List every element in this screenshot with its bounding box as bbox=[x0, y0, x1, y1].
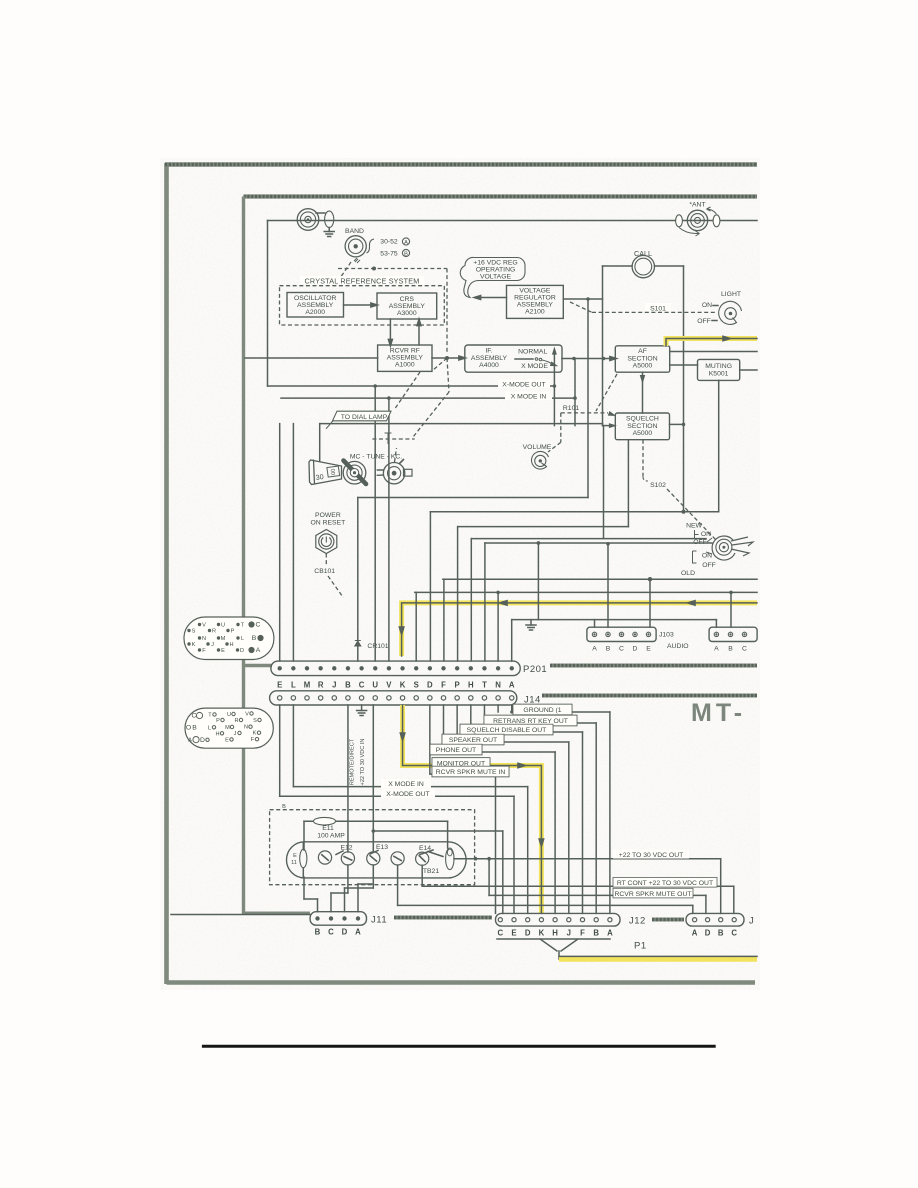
svg-text:T: T bbox=[241, 623, 245, 629]
svg-text:J: J bbox=[567, 929, 571, 938]
svg-text:N: N bbox=[202, 636, 206, 642]
yellow af out to right bbox=[666, 339, 757, 347]
svg-text:+16 VDC REG: +16 VDC REG bbox=[473, 260, 517, 267]
ground wire from outer border to J11 bbox=[171, 914, 310, 916]
svg-text:N: N bbox=[495, 681, 501, 690]
+22 TO 30 VDC OUT bbox=[720, 859, 722, 914]
screw terminals bbox=[318, 851, 331, 864]
svg-text:H: H bbox=[229, 642, 233, 648]
svg-text:F: F bbox=[580, 929, 585, 938]
svg-text:SECTION: SECTION bbox=[627, 356, 657, 363]
svg-text:SQUELCH DISABLE OUT: SQUELCH DISABLE OUT bbox=[467, 727, 547, 734]
svg-text:A: A bbox=[714, 646, 719, 653]
svg-text:J: J bbox=[234, 731, 237, 737]
chassis left vertical bbox=[267, 221, 269, 387]
svg-text:ASSEMBLY: ASSEMBLY bbox=[517, 302, 554, 309]
svg-text:K5001: K5001 bbox=[709, 371, 729, 378]
svg-text:D: D bbox=[633, 646, 638, 653]
svg-text:E: E bbox=[646, 646, 651, 653]
svg-text:B: B bbox=[728, 646, 733, 653]
svg-text:M: M bbox=[225, 725, 230, 731]
REMOTE/DIRECT drop to TB21 E12 bbox=[347, 705, 349, 852]
muting K5001 bbox=[698, 359, 740, 380]
wire E14 to right bbox=[454, 858, 721, 860]
fuse F11 inside bbox=[300, 849, 307, 868]
svg-text:C: C bbox=[256, 622, 261, 629]
svg-text:CB101: CB101 bbox=[314, 568, 335, 575]
svg-text:PHONE OUT: PHONE OUT bbox=[436, 747, 476, 754]
svg-text:A: A bbox=[509, 681, 515, 690]
svg-text:E: E bbox=[511, 929, 516, 938]
svg-text:NEW: NEW bbox=[686, 523, 702, 530]
svg-text:A: A bbox=[188, 738, 192, 744]
drop x=538.4 bbox=[537, 543, 539, 620]
svg-text:K: K bbox=[400, 681, 406, 690]
svg-text:C: C bbox=[742, 646, 747, 653]
svg-text:D: D bbox=[240, 648, 244, 654]
svg-text:H: H bbox=[215, 731, 219, 737]
svg-text:V: V bbox=[202, 623, 206, 629]
wire into squelch left bbox=[603, 425, 611, 427]
x-mode in line bbox=[281, 397, 575, 399]
svg-text:B: B bbox=[345, 681, 351, 690]
bus y=526.6 from squelch bbox=[458, 526, 629, 528]
wire rcvr to IF assembly bbox=[432, 357, 461, 359]
bus y=538.6 call box right bbox=[471, 538, 706, 540]
svg-text:A4000: A4000 bbox=[479, 362, 499, 369]
+16 VDC bubble bbox=[460, 257, 525, 297]
svg-text:A: A bbox=[404, 240, 408, 246]
svg-text:A: A bbox=[355, 928, 361, 937]
to dial lamp flag bbox=[320, 423, 603, 425]
svg-text:RCVR SPKR MUTE IN: RCVR SPKR MUTE IN bbox=[436, 769, 506, 776]
svg-text:TB21: TB21 bbox=[423, 868, 439, 875]
svg-text:U: U bbox=[221, 623, 225, 629]
svg-text:B: B bbox=[606, 646, 611, 653]
svg-text:VOLTAGE: VOLTAGE bbox=[480, 274, 512, 281]
svg-text:J: J bbox=[332, 681, 336, 690]
svg-text:R: R bbox=[318, 681, 324, 690]
svg-text:30: 30 bbox=[315, 472, 324, 482]
svg-text:OPERATING: OPERATING bbox=[476, 267, 516, 274]
bus y=543 to switch bbox=[485, 542, 712, 544]
svg-text:MT-: MT- bbox=[691, 699, 746, 727]
dashed from BAND to crystal box bbox=[354, 258, 360, 263]
wires to P201 pins bbox=[279, 424, 281, 661]
svg-text:A2100: A2100 bbox=[525, 309, 545, 316]
svg-text:T: T bbox=[208, 713, 212, 719]
svg-text:ASSEMBLY: ASSEMBLY bbox=[387, 355, 424, 362]
svg-text:R101: R101 bbox=[563, 405, 579, 412]
IF assembly A4000 bbox=[465, 345, 562, 372]
dashed node near IF bbox=[445, 356, 449, 360]
svg-text:C: C bbox=[192, 713, 197, 720]
svg-text:IF.: IF. bbox=[485, 348, 492, 355]
svg-text:A: A bbox=[692, 929, 698, 938]
x-mode out line bbox=[268, 385, 555, 387]
bus y=497.5 bbox=[358, 497, 588, 499]
PHONE OUT line bbox=[443, 705, 445, 752]
svg-text:T: T bbox=[482, 681, 487, 690]
SQUELCH DISABLE OUT line bbox=[470, 705, 472, 732]
svg-text:CRS: CRS bbox=[400, 296, 415, 303]
svg-text:OLD: OLD bbox=[681, 570, 695, 577]
wires CRS down to RCVR RF bbox=[389, 319, 391, 342]
battery dashed box B bbox=[270, 810, 475, 885]
K5001 drop bbox=[718, 380, 720, 511]
RCVR SPKR MUTE IN line bbox=[429, 705, 431, 774]
MONITOR OUT yellow line bbox=[403, 705, 542, 913]
bottom yellow cable bbox=[559, 957, 757, 962]
svg-text:E11: E11 bbox=[322, 825, 334, 832]
P201 face view pill bbox=[184, 617, 274, 660]
connector J12 bbox=[496, 913, 621, 926]
svg-text:B: B bbox=[718, 929, 724, 938]
TB21 terminal strip bbox=[287, 842, 467, 878]
svg-text:MUTING: MUTING bbox=[705, 363, 732, 370]
svg-text:H: H bbox=[468, 681, 474, 690]
svg-text:53-75: 53-75 bbox=[380, 251, 398, 258]
inner chassis frame bbox=[244, 194, 758, 198]
RT CONT +22 TO 30 VDC OUT bbox=[421, 865, 423, 886]
svg-text:A5000: A5000 bbox=[633, 430, 653, 437]
svg-text:S: S bbox=[414, 681, 419, 690]
svg-text:P: P bbox=[216, 718, 220, 724]
dashed af to r101 bbox=[596, 374, 617, 411]
svg-text:SQUELCH: SQUELCH bbox=[626, 416, 659, 423]
svg-text:B: B bbox=[593, 929, 599, 938]
svg-text:K: K bbox=[192, 642, 196, 648]
svg-text:00: 00 bbox=[329, 469, 336, 476]
connector J14 bbox=[270, 691, 517, 705]
svg-text:B: B bbox=[252, 635, 257, 642]
svg-text:REGULATOR: REGULATOR bbox=[514, 295, 556, 302]
E11 100 AMP fuse line bbox=[304, 820, 448, 822]
svg-text:VOLTAGE: VOLTAGE bbox=[519, 288, 551, 295]
+22 VDC IN drop to TB21 E13 bbox=[372, 705, 374, 852]
svg-text:S102: S102 bbox=[650, 482, 666, 489]
CR101 diode bbox=[355, 641, 361, 647]
svg-text:E: E bbox=[221, 648, 225, 654]
svg-text:C: C bbox=[497, 929, 503, 938]
E14 capsule bbox=[446, 848, 454, 870]
svg-text:F: F bbox=[441, 681, 446, 690]
svg-text:ON: ON bbox=[702, 302, 712, 309]
svg-text:E: E bbox=[277, 681, 282, 690]
svg-text:C: C bbox=[328, 928, 334, 937]
vertical bus x=588 bbox=[587, 299, 589, 498]
P1 cable bracket bbox=[497, 939, 610, 959]
connector P201 bbox=[271, 661, 520, 676]
svg-text:P201: P201 bbox=[523, 664, 547, 675]
S101 dashed + light bbox=[570, 302, 592, 312]
svg-text:P: P bbox=[231, 629, 235, 635]
svg-text:X-MODE OUT: X-MODE OUT bbox=[386, 791, 429, 798]
svg-text:B: B bbox=[192, 725, 197, 732]
svg-text:D: D bbox=[200, 737, 205, 744]
bus y=592.4 bbox=[415, 591, 757, 593]
svg-text:C: C bbox=[731, 929, 737, 938]
footer rule bbox=[202, 1045, 716, 1048]
svg-text:J12: J12 bbox=[629, 916, 646, 927]
wire frame to rcvr rf bbox=[245, 357, 378, 359]
right audio connector bbox=[709, 627, 757, 641]
svg-text:E12: E12 bbox=[340, 845, 352, 852]
svg-text:A3000: A3000 bbox=[397, 310, 417, 317]
crystal reference system dashed box bbox=[280, 286, 445, 325]
svg-text:REMOTE/DIRECT: REMOTE/DIRECT bbox=[350, 738, 356, 785]
outer page border bbox=[165, 163, 757, 984]
svg-text:D: D bbox=[705, 929, 711, 938]
wire IF to AF section bbox=[562, 358, 612, 360]
svg-text:LIGHT: LIGHT bbox=[721, 291, 741, 298]
svg-text:L: L bbox=[291, 681, 296, 690]
TB21 E13 to J12 C bbox=[372, 831, 374, 842]
svg-text:D: D bbox=[342, 928, 348, 937]
svg-text:POWER: POWER bbox=[315, 512, 341, 519]
svg-text:F: F bbox=[251, 737, 255, 743]
svg-text:M: M bbox=[221, 636, 226, 642]
squelch section A5000 bbox=[615, 413, 669, 440]
RETRANS RT KEY OUT line bbox=[483, 705, 485, 723]
svg-text:P: P bbox=[455, 681, 460, 690]
arrow to bubble bbox=[478, 297, 507, 299]
svg-text:F: F bbox=[202, 648, 206, 654]
svg-text:C: C bbox=[619, 646, 624, 653]
SPEAKER OUT line bbox=[456, 705, 458, 742]
BNC connector top-left bbox=[297, 209, 319, 231]
svg-text:+22 TO 30 VDC OUT: +22 TO 30 VDC OUT bbox=[619, 852, 684, 859]
AF section A5000 bbox=[615, 346, 669, 372]
RCVR RF assembly A1000 bbox=[378, 345, 432, 371]
svg-text:ON: ON bbox=[701, 531, 711, 538]
svg-text:S: S bbox=[192, 629, 196, 635]
wires TB21 down to J11 bbox=[303, 877, 305, 899]
svg-text:SPEAKER OUT: SPEAKER OUT bbox=[449, 737, 497, 744]
svg-text:A: A bbox=[607, 929, 613, 938]
svg-text:OSCILLATOR: OSCILLATOR bbox=[294, 295, 337, 302]
svg-text:+22 TO 30 VDC IN: +22 TO 30 VDC IN bbox=[360, 739, 366, 786]
svg-text:AF: AF bbox=[638, 348, 647, 355]
svg-text:ASSEMBLY: ASSEMBLY bbox=[297, 302, 334, 309]
svg-text:X MODE IN: X MODE IN bbox=[388, 781, 424, 788]
GROUND (1) line bbox=[511, 705, 513, 712]
svg-text:V: V bbox=[386, 681, 392, 690]
S102 dashed from squelch bbox=[642, 440, 644, 477]
svg-text:J: J bbox=[749, 916, 754, 927]
voltage regulator assembly A2100 bbox=[507, 285, 564, 318]
ground on bus bbox=[530, 620, 532, 625]
svg-text:U: U bbox=[372, 681, 378, 690]
svg-text:ASSEMBLY: ASSEMBLY bbox=[389, 303, 426, 310]
wire af right out bbox=[670, 351, 757, 353]
wire squelch to right bus bbox=[670, 423, 684, 425]
oscillator assembly A2000 bbox=[287, 293, 344, 318]
svg-text:VOLUME: VOLUME bbox=[523, 444, 552, 451]
svg-text:B: B bbox=[404, 251, 408, 257]
svg-text:M: M bbox=[304, 681, 311, 690]
connector J11 bbox=[310, 912, 366, 926]
svg-text:K: K bbox=[253, 731, 257, 737]
svg-text:P1: P1 bbox=[634, 941, 647, 952]
svg-text:E: E bbox=[225, 737, 229, 743]
svg-text:R: R bbox=[212, 629, 216, 635]
svg-text:H: H bbox=[552, 929, 558, 938]
yellow monitor line y=602.9 bbox=[402, 603, 757, 656]
svg-text:N: N bbox=[244, 725, 248, 731]
svg-text:A2000: A2000 bbox=[305, 309, 325, 316]
connector J13 bbox=[686, 913, 744, 926]
arrow osc to crs bbox=[344, 304, 374, 306]
svg-text:11: 11 bbox=[291, 860, 297, 866]
svg-text:J11: J11 bbox=[371, 915, 387, 926]
svg-text:30-52: 30-52 bbox=[380, 239, 398, 246]
svg-text:C: C bbox=[359, 681, 365, 690]
svg-text:TO DIAL LAMP: TO DIAL LAMP bbox=[341, 414, 388, 421]
svg-text:L: L bbox=[208, 725, 211, 731]
svg-text:X MODE: X MODE bbox=[521, 363, 548, 370]
svg-text:CRYSTAL REFERENCE SYSTEM: CRYSTAL REFERENCE SYSTEM bbox=[305, 277, 420, 286]
ground under J14 pin C bbox=[361, 705, 363, 711]
svg-text:RCVR RF: RCVR RF bbox=[390, 348, 420, 355]
wire af down to squelch bbox=[642, 372, 644, 413]
svg-text:J103: J103 bbox=[659, 632, 674, 639]
svg-text:B: B bbox=[282, 804, 286, 810]
call box outline bbox=[603, 265, 633, 267]
frame stub to P201 left bbox=[244, 664, 273, 667]
svg-text:B: B bbox=[315, 928, 321, 937]
svg-text:AUDIO: AUDIO bbox=[667, 643, 689, 650]
svg-text:D: D bbox=[525, 929, 531, 938]
CRS assembly A3000 bbox=[377, 293, 437, 319]
taps to P201 U V bbox=[373, 384, 377, 388]
switch inside IF bbox=[515, 358, 533, 360]
svg-text:K: K bbox=[539, 929, 545, 938]
J103 connector bbox=[587, 627, 656, 641]
svg-text:A5000: A5000 bbox=[633, 363, 653, 370]
bracket 30-52 / 53-75 bbox=[367, 239, 375, 253]
svg-text:A: A bbox=[592, 646, 597, 653]
svg-text:D: D bbox=[427, 681, 433, 690]
TUNE KC knob bbox=[383, 463, 404, 484]
svg-text:E: E bbox=[293, 853, 297, 859]
fuse capsule + ground bbox=[325, 211, 334, 227]
TB21 S4 to J13 A bbox=[397, 865, 399, 905]
svg-text:CR101: CR101 bbox=[367, 643, 388, 650]
svg-text:RT CONT +22 TO 30 VDC OUT: RT CONT +22 TO 30 VDC OUT bbox=[617, 880, 713, 887]
svg-text:O: O bbox=[186, 725, 191, 732]
X-MODE OUT line bbox=[279, 705, 281, 796]
svg-text:ON RESET: ON RESET bbox=[311, 520, 346, 527]
RCVR SPKR MUTE OUT bbox=[488, 859, 490, 896]
J14 face view pill bbox=[185, 708, 273, 748]
wire vreg to call box bbox=[563, 298, 602, 300]
svg-text:*ANT: *ANT bbox=[689, 202, 705, 209]
dashed tuning links bbox=[372, 438, 414, 440]
svg-text:U: U bbox=[227, 712, 231, 718]
svg-text:S: S bbox=[253, 718, 257, 724]
svg-text:SECTION: SECTION bbox=[627, 423, 657, 430]
svg-text:A: A bbox=[256, 647, 261, 654]
svg-text:J: J bbox=[211, 642, 214, 648]
svg-text:OFF: OFF bbox=[702, 562, 716, 569]
MC dial window bbox=[309, 460, 342, 485]
svg-text:X MODE IN: X MODE IN bbox=[511, 394, 547, 401]
bus y=579.2 bbox=[443, 578, 757, 580]
svg-text:BAND: BAND bbox=[345, 228, 364, 235]
X MODE IN line bbox=[292, 705, 294, 787]
bus y=512.4 with muting drop bbox=[430, 511, 718, 513]
svg-text:S101: S101 bbox=[650, 306, 666, 313]
label tags overlay bbox=[513, 704, 572, 715]
svg-text:RCVR SPKR MUTE OUT: RCVR SPKR MUTE OUT bbox=[614, 891, 691, 898]
svg-text:100 AMP: 100 AMP bbox=[317, 833, 345, 840]
svg-text:A1000: A1000 bbox=[395, 362, 415, 369]
svg-text:X-MODE OUT: X-MODE OUT bbox=[502, 382, 545, 389]
svg-text:V: V bbox=[245, 712, 249, 718]
svg-text:NORMAL: NORMAL bbox=[518, 349, 547, 356]
wire top antenna line bbox=[268, 220, 758, 222]
bus y=619.6 bbox=[512, 619, 717, 621]
svg-text:OFF: OFF bbox=[697, 318, 711, 325]
svg-text:GROUND (1: GROUND (1 bbox=[523, 707, 561, 714]
svg-text:R: R bbox=[234, 718, 238, 724]
svg-text:ASSEMBLY: ASSEMBLY bbox=[471, 355, 508, 362]
svg-text:L: L bbox=[241, 636, 244, 642]
